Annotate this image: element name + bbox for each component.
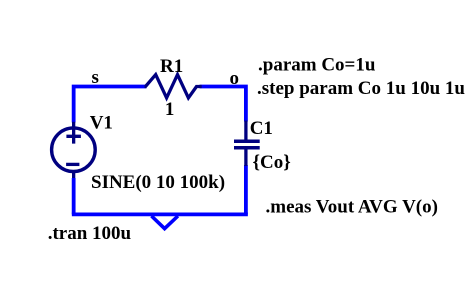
resistor R1 zigzag [145, 75, 202, 98]
wire top-right segment (R1 to node o corner) [200, 87, 246, 122]
svg-text:.param Co=1u: .param Co=1u [258, 55, 376, 76]
wire bottom rail [72, 212, 248, 216]
wire left-bottom segment (V1 to bottom rail) [72, 178, 76, 214]
capacitor C1 bottom plate [234, 146, 260, 150]
capacitor C1 top plate [234, 139, 260, 143]
svg-text:.step param Co 1u 10u 1u: .step param Co 1u 10u 1u [257, 78, 465, 99]
svg-text:.tran 100u: .tran 100u [48, 223, 132, 244]
wire top-left segment (node s to R1) [74, 87, 147, 123]
svg-text:s: s [92, 67, 99, 88]
svg-text:V1: V1 [90, 113, 113, 134]
svg-text:SINE(0 10 100k): SINE(0 10 100k) [91, 172, 225, 193]
svg-text:{Co}: {Co} [253, 152, 291, 173]
svg-text:.meas Vout AVG V(o): .meas Vout AVG V(o) [266, 197, 438, 218]
svg-text:C1: C1 [250, 118, 273, 139]
svg-text:1: 1 [165, 99, 175, 120]
V1 top lead [72, 122, 75, 129]
ground [152, 216, 178, 229]
svg-text:R1: R1 [160, 56, 183, 77]
V1 bottom lead [72, 171, 75, 178]
wire right-bottom segment (C1 to bottom rail) [244, 165, 248, 214]
V1 plus sign [66, 129, 81, 144]
capacitor C1 top lead [244, 121, 247, 141]
capacitor C1 bottom lead [244, 148, 247, 166]
svg-text:o: o [230, 68, 240, 89]
V1 minus sign [66, 163, 79, 166]
voltage source V1 body [52, 128, 96, 172]
